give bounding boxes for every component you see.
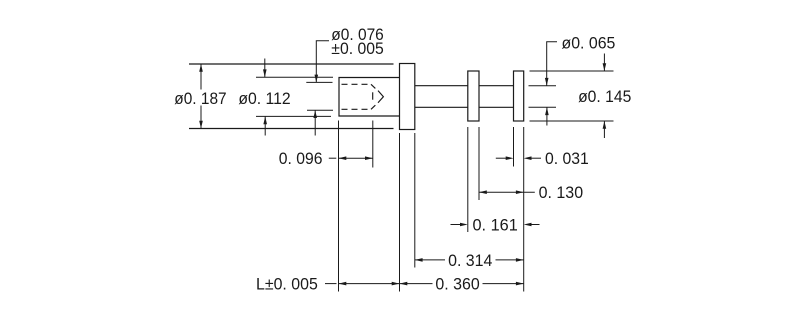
svg-text:0. 031: 0. 031	[545, 149, 589, 168]
svg-text:0. 130: 0. 130	[539, 183, 584, 202]
svg-text:ø0. 112: ø0. 112	[238, 89, 290, 108]
svg-text:ø0. 065: ø0. 065	[562, 34, 616, 53]
svg-text:ø0. 187: ø0. 187	[174, 89, 226, 108]
svg-text:L±0. 005: L±0. 005	[256, 275, 318, 294]
svg-text:±0. 005: ±0. 005	[331, 39, 384, 58]
svg-text:0. 161: 0. 161	[473, 215, 518, 234]
svg-text:0. 096: 0. 096	[279, 149, 323, 168]
svg-text:ø0. 145: ø0. 145	[578, 87, 631, 106]
svg-text:0. 360: 0. 360	[435, 274, 479, 293]
svg-text:0. 314: 0. 314	[448, 251, 492, 270]
